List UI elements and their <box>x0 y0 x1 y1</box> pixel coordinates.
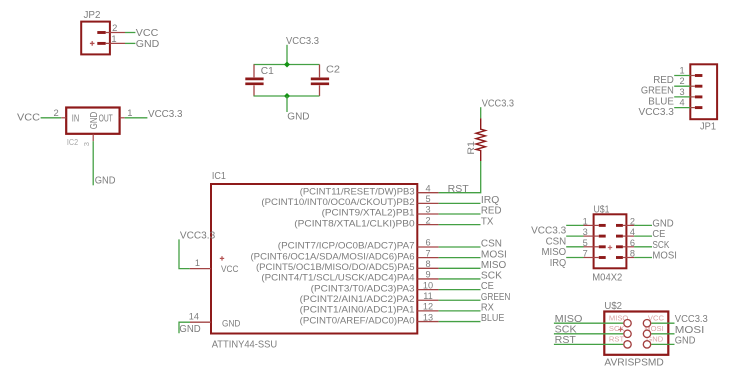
IC1 pin 14 number <box>189 312 199 322</box>
label net MISO (U$1) <box>542 247 567 258</box>
svg-text:BLUE: BLUE <box>481 313 505 324</box>
label net VCC3.3 (IC1) <box>180 231 216 242</box>
label IC2 <box>67 138 78 147</box>
wire net VCC to IC2 IN <box>41 117 62 119</box>
IC1 pin 13 (PA0) <box>417 321 438 323</box>
resistor R1 <box>476 118 485 161</box>
svg-text:OUT: OUT <box>99 113 113 124</box>
svg-text:MISO: MISO <box>481 260 506 271</box>
connector U$1 body <box>594 214 627 268</box>
svg-text:C2: C2 <box>326 65 340 76</box>
IC2 pin name IN <box>72 113 79 124</box>
JP1 pin 2 number <box>679 76 684 86</box>
value ATTINY44-SSU <box>212 339 278 350</box>
label JP2 <box>84 10 101 21</box>
wire net CSN to U$1 pin 3 <box>566 235 583 237</box>
svg-text:RED: RED <box>481 206 502 217</box>
wire net VCC3.3 from IC2 OUT <box>125 117 148 119</box>
U$2 right pad circle row 1 <box>643 320 650 327</box>
IC1 pin 4 (PB3) <box>417 192 438 194</box>
label net RED (JP1) <box>653 75 674 86</box>
wire net IRQ <box>439 202 481 204</box>
U$1 pin 4 stub <box>616 235 634 238</box>
svg-text:RX: RX <box>481 303 494 314</box>
junction top rail <box>284 62 290 68</box>
capacitor C1 <box>245 65 263 97</box>
junction bottom rail <box>284 93 290 99</box>
IC1 pin 5 number <box>425 194 430 204</box>
svg-text:(PCINT7/ICP/OC0B/ADC7)PA7: (PCINT7/ICP/OC0B/ADC7)PA7 <box>278 241 415 252</box>
svg-text:MISO: MISO <box>555 314 583 325</box>
IC1 pin 14 GND <box>190 321 211 323</box>
svg-text:GND: GND <box>95 175 116 186</box>
IC ATtiny44 IC1 body <box>211 184 417 334</box>
wire net RST to U$2 left pad 3 <box>554 343 623 345</box>
svg-text:RST: RST <box>555 335 577 346</box>
label net MISO (U$2 left) <box>555 314 583 325</box>
U$1 pin 4 number <box>630 227 635 237</box>
svg-text:U$1: U$1 <box>594 204 610 215</box>
svg-text:(PCINT4/T1/SCL/USCK/ADC4)PA4: (PCINT4/T1/SCL/USCK/ADC4)PA4 <box>261 273 415 284</box>
svg-text:(PCINT1/AIN0/ADC1)PA1: (PCINT1/AIN0/ADC1)PA1 <box>300 305 415 316</box>
IC1 pin 4 number <box>425 183 430 193</box>
U$2 right pad circle row 3 <box>643 341 650 348</box>
U$2 left pad circle row 1 <box>624 320 631 327</box>
svg-text:SCK: SCK <box>652 240 669 251</box>
svg-text:8: 8 <box>425 259 430 269</box>
IC1 pin name (PCINT9/XTAL2)PB1 <box>322 208 415 219</box>
svg-text:MOSI: MOSI <box>481 249 507 260</box>
svg-text:13: 13 <box>423 312 433 322</box>
svg-text:IRQ: IRQ <box>550 258 566 269</box>
label net VCC <box>136 28 159 39</box>
IC2 pin name OUT <box>99 113 113 124</box>
label net MISO <box>481 260 506 271</box>
wire net GND from JP2 pin 1 <box>125 42 135 44</box>
svg-text:RED: RED <box>653 75 674 86</box>
wire net SCK to U$2 left pad 2 <box>554 333 623 335</box>
svg-text:CE: CE <box>652 229 665 240</box>
IC1 pin 9 (PA4) <box>417 278 438 280</box>
U$2 pad name SCK <box>609 324 625 333</box>
label net SCK (U$2 left) <box>555 324 577 335</box>
U$2 origin cross <box>618 327 622 331</box>
wire net VCC3.3 from U$2 right pad 1 <box>651 322 674 324</box>
label net TX <box>481 216 494 227</box>
wire VCC3.3 to R1 <box>480 107 482 118</box>
IC2 pin 1 number <box>127 107 132 118</box>
wire VCC3.3 vertical to cap rail <box>286 45 288 65</box>
svg-text:GND: GND <box>222 318 240 329</box>
label net GND (IC2) <box>95 175 116 186</box>
IC1 pin 12 number <box>423 302 433 312</box>
label net RX <box>481 303 494 314</box>
wire net MISO <box>439 267 481 269</box>
svg-text:GREEN: GREEN <box>481 292 511 303</box>
wire net GND from U$2 right pad 3 <box>651 343 674 345</box>
svg-text:SCK: SCK <box>609 324 625 333</box>
wire net RST from IC1 pin 4 to R1 <box>439 161 481 193</box>
svg-text:RST: RST <box>609 335 625 344</box>
IC1 pin 8 (PA5) <box>417 267 438 269</box>
label net MOSI <box>481 249 507 260</box>
wire top rail VCC3.3 <box>254 64 320 66</box>
svg-text:GND: GND <box>652 219 673 230</box>
IC2 pin 2 number <box>53 107 58 118</box>
value AVRISPSMD <box>604 358 663 369</box>
svg-text:2: 2 <box>679 76 684 86</box>
svg-text:(PCINT2/AIN1/ADC2)PA2: (PCINT2/AIN1/ADC2)PA2 <box>300 294 415 305</box>
wire net CE from U$1 pin 4 <box>634 235 652 237</box>
label net VCC3.3 (U$1) <box>531 226 566 237</box>
wire net GND from IC2 <box>92 141 94 185</box>
svg-text:(PCINT9/XTAL2)PB1: (PCINT9/XTAL2)PB1 <box>322 208 415 219</box>
svg-text:9: 9 <box>425 270 430 280</box>
IC2 pin name GND rotated <box>89 112 100 130</box>
svg-text:VCC3.3: VCC3.3 <box>180 231 216 242</box>
wire net RED <box>439 213 481 215</box>
IC1 pin 2 number <box>425 215 430 225</box>
svg-text:GND: GND <box>179 324 200 335</box>
label IC1 <box>212 171 226 182</box>
svg-text:2: 2 <box>53 107 58 118</box>
label net VCC3.3 (U$2 right) <box>675 314 708 325</box>
IC2 pin 3 (GND) <box>92 134 94 141</box>
label net IRQ <box>481 195 499 206</box>
IC1 pin 7 (PA6) <box>417 257 438 259</box>
label net RST (U$2 left) <box>555 335 577 346</box>
svg-text:10: 10 <box>423 280 433 290</box>
IC1 pin name GND <box>222 318 240 329</box>
U$1 pin 6 stub <box>616 245 634 248</box>
IC1 pin name (PCINT8/XTAL1/CLKI)PB0 <box>294 218 414 229</box>
IC1 pin 6 number <box>425 238 430 248</box>
svg-text:4: 4 <box>679 98 684 108</box>
svg-text:3: 3 <box>425 205 430 215</box>
svg-text:1: 1 <box>111 33 116 44</box>
label net SCK <box>481 271 502 282</box>
U$2 pad name VCC <box>648 314 665 323</box>
svg-text:GND: GND <box>287 112 309 123</box>
U$1 pin 6 number <box>630 238 635 248</box>
label net GREEN <box>481 292 511 303</box>
label net GND (U$1) <box>652 219 673 230</box>
label net RED <box>481 206 502 217</box>
IC1 pin name (PCINT0/AREF/ADC0)PA0 <box>300 315 415 326</box>
label net CSN <box>481 239 502 250</box>
U$2 left pad circle row 3 <box>624 341 631 348</box>
label net BLUE <box>481 313 505 324</box>
IC2 pin 2 (IN) <box>61 117 66 119</box>
svg-text:GND: GND <box>89 112 100 130</box>
wire net VCC3.3 to IC1 pin 1 <box>179 239 190 268</box>
IC1 pin 11 (PA2) <box>417 299 438 301</box>
U$1 pin 7 stub <box>584 256 606 259</box>
svg-text:IRQ: IRQ <box>481 195 499 206</box>
svg-text:2: 2 <box>425 215 430 225</box>
U$1 pin 7 number <box>583 249 588 259</box>
IC1 pin 5 (PB2) <box>417 202 438 204</box>
U$1 pin 1 number <box>583 217 588 227</box>
svg-text:1: 1 <box>195 258 200 268</box>
svg-text:(PCINT10/INT0/OC0A/CKOUT)PB2: (PCINT10/INT0/OC0A/CKOUT)PB2 <box>261 197 414 208</box>
svg-text:JP1: JP1 <box>700 121 716 132</box>
wire net BLUE <box>439 321 481 323</box>
svg-text:(PCINT3/T0/ADC3)PA3: (PCINT3/T0/ADC3)PA3 <box>311 283 415 294</box>
connector JP2 body <box>81 22 110 55</box>
svg-text:C1: C1 <box>261 66 274 77</box>
IC1 pin 1 VCC <box>190 268 211 270</box>
svg-text:1: 1 <box>127 107 132 118</box>
label net VCC3.3 (IC2 output) <box>148 109 183 120</box>
IC1 pin 1 number <box>195 258 200 268</box>
U$1 pin 2 number <box>630 217 635 227</box>
U$1 pin 5 number <box>583 238 588 248</box>
svg-text:IN: IN <box>72 113 79 124</box>
IC1 pin name (PCINT11/RESET/DW)PB3 <box>300 186 415 197</box>
label net IRQ (U$1) <box>550 258 566 269</box>
label net GND (U$2 right) <box>675 335 696 346</box>
IC1 plus mark <box>220 256 224 260</box>
svg-text:11: 11 <box>423 291 433 301</box>
wire net TX <box>439 224 481 226</box>
svg-text:CSN: CSN <box>546 236 567 247</box>
JP2 pin 1 stub <box>97 42 125 45</box>
svg-text:VCC: VCC <box>136 28 159 39</box>
label C1 <box>261 66 274 77</box>
IC1 pin 8 number <box>425 259 430 269</box>
svg-text:5: 5 <box>425 194 430 204</box>
svg-text:VCC: VCC <box>17 112 41 123</box>
svg-text:AVRISPSMD: AVRISPSMD <box>604 358 663 369</box>
JP1 pin 2 stub <box>690 85 702 88</box>
svg-text:(PCINT8/XTAL1/CLKI)PB0: (PCINT8/XTAL1/CLKI)PB0 <box>294 218 414 229</box>
label net GND (caps) <box>287 112 309 123</box>
U$1 origin cross <box>608 245 612 249</box>
svg-text:IC1: IC1 <box>212 171 226 182</box>
IC1 pin name (PCINT7/ICP/OC0B/ADC7)PA7 <box>278 241 415 252</box>
IC1 pin name (PCINT2/AIN1/ADC2)PA2 <box>300 294 415 305</box>
svg-text:TX: TX <box>481 216 494 227</box>
wire net SCK <box>439 278 481 280</box>
IC1 pin 7 number <box>425 248 430 258</box>
label net GREEN (JP1) <box>641 86 674 97</box>
U$2 pad name MOSI <box>644 324 663 333</box>
svg-text:4: 4 <box>425 183 430 193</box>
IC1 pin name (PCINT4/T1/SCL/USCK/ADC4)PA4 <box>261 273 415 284</box>
IC1 pin 6 (PA7) <box>417 246 438 248</box>
IC1 pin name VCC <box>221 264 238 275</box>
svg-text:3: 3 <box>82 142 91 146</box>
label net BLUE (JP1) <box>648 96 674 107</box>
label net RST <box>448 184 470 195</box>
svg-text:(PCINT6/OC1A/SDA/MOSI/ADC6)PA6: (PCINT6/OC1A/SDA/MOSI/ADC6)PA6 <box>251 251 415 262</box>
U$1 pin 2 stub <box>616 224 634 227</box>
svg-text:SCK: SCK <box>481 271 502 282</box>
JP1 pin 3 stub <box>690 95 702 98</box>
label net CSN (U$1) <box>546 236 567 247</box>
U$2 pad name GND <box>646 335 663 344</box>
wire net MISO to U$1 pin 5 <box>566 246 583 248</box>
label net CE <box>481 281 494 292</box>
wire net VCC3.3 to JP1 pin 4 <box>674 107 690 109</box>
svg-text:VCC3.3: VCC3.3 <box>531 226 566 237</box>
svg-text:CSN: CSN <box>481 239 502 250</box>
U$2 pad name MISO <box>609 314 629 323</box>
svg-text:MISO: MISO <box>542 247 567 258</box>
svg-text:1: 1 <box>679 66 684 76</box>
U$1 pin 3 stub <box>584 235 606 238</box>
svg-text:12: 12 <box>423 302 433 312</box>
wire net MOSI from U$1 pin 8 <box>634 257 652 259</box>
svg-text:6: 6 <box>425 238 430 248</box>
IC1 pin 13 number <box>423 312 433 322</box>
svg-text:VCC3.3: VCC3.3 <box>148 109 183 120</box>
JP1 pin 1 stub <box>690 74 702 77</box>
wire net VCC from JP2 pin 2 <box>125 32 135 34</box>
wire net IRQ to U$1 pin 7 <box>566 257 583 259</box>
U$2 right pad circle row 2 <box>643 330 650 337</box>
wire net SCK from U$1 pin 6 <box>634 246 652 248</box>
IC1 pin 9 number <box>425 270 430 280</box>
svg-text:MOSI: MOSI <box>675 325 705 336</box>
U$1 pin 3 number <box>583 227 588 237</box>
svg-text:ATTINY44-SSU: ATTINY44-SSU <box>212 339 278 350</box>
svg-text:(PCINT11/RESET/DW)PB3: (PCINT11/RESET/DW)PB3 <box>300 186 415 197</box>
label U$1 <box>594 204 610 215</box>
wire net GREEN <box>439 299 481 301</box>
IC1 pin name (PCINT1/AIN0/ADC1)PA1 <box>300 305 415 316</box>
svg-text:VCC3.3: VCC3.3 <box>639 107 675 118</box>
U$2 left pad circle row 2 <box>624 330 631 337</box>
label R1 rotated <box>466 141 477 155</box>
svg-text:3: 3 <box>679 87 684 97</box>
U$2 pad name RST <box>609 335 625 344</box>
JP1 pin 3 number <box>679 87 684 97</box>
svg-text:7: 7 <box>425 248 430 258</box>
IC1 pin 3 (PB1) <box>417 213 438 215</box>
U$1 pin 5 stub <box>584 245 606 248</box>
U$1 pin 1 stub <box>584 224 606 227</box>
wire GND vertical below rail <box>286 96 288 112</box>
wire net GND from IC1 pin 14 <box>179 322 190 333</box>
label net VCC (IC2 input) <box>17 112 41 123</box>
IC1 pin name (PCINT3/T0/ADC3)PA3 <box>311 283 415 294</box>
wire net BLUE to JP1 pin 3 <box>674 96 690 98</box>
capacitor C2 <box>311 65 329 97</box>
label net GND (IC1) <box>179 324 200 335</box>
label net SCK (U$1) <box>652 240 669 251</box>
label C2 <box>326 65 340 76</box>
JP2 pin 1 number <box>111 33 116 44</box>
svg-text:IC2: IC2 <box>67 138 78 147</box>
wire net MOSI <box>439 257 481 259</box>
JP2 pin 2 stub <box>97 31 125 34</box>
label net VCC3.3 (JP1) <box>639 107 675 118</box>
svg-text:(PCINT0/AREF/ADC0)PA0: (PCINT0/AREF/ADC0)PA0 <box>300 315 415 326</box>
svg-text:GREEN: GREEN <box>641 86 674 97</box>
IC1 pin 10 (PA3) <box>417 289 438 291</box>
label net GND <box>136 39 160 50</box>
IC2 pin 1 (OUT) <box>120 117 125 119</box>
wire net GREEN to JP1 pin 2 <box>674 85 690 87</box>
svg-text:2: 2 <box>112 22 117 33</box>
label net MOSI (U$2 right) <box>675 325 705 336</box>
JP1 pin 4 stub <box>690 106 702 109</box>
svg-text:GND: GND <box>136 39 160 50</box>
wire net RX <box>439 310 481 312</box>
wire net VCC3.3 to U$1 pin 1 <box>566 224 583 226</box>
svg-text:BLUE: BLUE <box>648 96 674 107</box>
svg-text:M04X2: M04X2 <box>592 272 622 283</box>
JP2 pin 2 number <box>112 22 117 33</box>
JP2 polarity mark + <box>90 41 95 46</box>
label net CE (U$1) <box>652 229 665 240</box>
label net MOSI (U$1) <box>652 251 677 262</box>
IC1 pin name (PCINT5/OC1B/MISO/DO/ADC5)PA5 <box>256 262 415 273</box>
svg-text:14: 14 <box>189 312 199 322</box>
wire net CSN <box>439 246 481 248</box>
IC2 pin 3 number rotated <box>82 142 91 146</box>
label net VCC3.3 (caps) <box>286 36 319 47</box>
IC1 pin name (PCINT6/OC1A/SDA/MOSI/ADC6)PA6 <box>251 251 415 262</box>
U$1 pin 8 number <box>630 249 635 259</box>
svg-text:VCC3.3: VCC3.3 <box>286 36 319 47</box>
label JP1 <box>700 121 716 132</box>
svg-text:JP2: JP2 <box>84 10 101 21</box>
svg-text:VCC3.3: VCC3.3 <box>675 314 708 325</box>
svg-text:VCC: VCC <box>221 264 238 275</box>
wire net MOSI from U$2 right pad 2 <box>651 333 674 335</box>
IC1 pin 11 number <box>423 291 433 301</box>
IC1 pin name (PCINT10/INT0/OC0A/CKOUT)PB2 <box>261 197 414 208</box>
connector JP1 body <box>690 64 717 119</box>
IC1 pin 3 number <box>425 205 430 215</box>
svg-text:U$2: U$2 <box>604 301 622 312</box>
voltage regulator IC2 body <box>66 108 119 134</box>
IC1 pin 12 (PA1) <box>417 310 438 312</box>
wire net CE <box>439 289 481 291</box>
svg-text:VCC3.3: VCC3.3 <box>482 98 515 109</box>
label net VCC3.3 (R1 top) <box>482 98 515 109</box>
JP1 pin 1 number <box>679 66 684 76</box>
value M04X2 <box>592 272 622 283</box>
svg-text:MOSI: MOSI <box>652 251 677 262</box>
wire net MISO to U$2 left pad 1 <box>554 322 623 324</box>
wire net GND from U$1 pin 2 <box>634 224 652 226</box>
svg-text:GND: GND <box>675 335 696 346</box>
svg-text:R1: R1 <box>466 141 477 155</box>
wire net RED to JP1 pin 1 <box>674 75 690 77</box>
wire bottom rail GND <box>254 95 320 97</box>
label U$2 <box>604 301 622 312</box>
JP1 pin 4 number <box>679 98 684 108</box>
svg-text:(PCINT5/OC1B/MISO/DO/ADC5)PA5: (PCINT5/OC1B/MISO/DO/ADC5)PA5 <box>256 262 415 273</box>
connector U$2 body <box>604 312 668 355</box>
IC1 pin 10 number <box>423 280 433 290</box>
svg-text:SCK: SCK <box>555 324 577 335</box>
svg-text:CE: CE <box>481 281 494 292</box>
svg-text:RST: RST <box>448 184 470 195</box>
IC1 pin 2 (PB0) <box>417 224 438 226</box>
U$1 pin 8 stub <box>616 256 634 259</box>
